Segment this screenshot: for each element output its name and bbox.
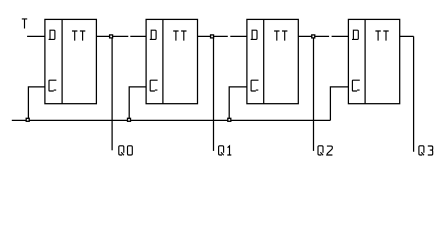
node square on bus at DD3 <box>228 118 231 121</box>
flip-flop DD3 divider <box>263 19 265 103</box>
flip-flop DD1 box <box>45 19 97 103</box>
node square on bus at DD1 <box>26 118 29 121</box>
label TT DD3 <box>274 31 279 41</box>
flip-flop DD3 box <box>247 19 298 103</box>
wire C input DD3 <box>229 87 247 121</box>
wire C input DD2 <box>129 87 146 121</box>
wire DD4 output to Q3 <box>400 36 414 151</box>
label T input <box>22 19 27 29</box>
flip-flop DD2 divider <box>162 19 164 103</box>
wire DD1 output to DD2 D input <box>96 35 146 37</box>
label D pin DD1 <box>49 30 55 39</box>
node square on wire Q2 <box>312 35 315 38</box>
wire C input DD1 <box>28 87 45 121</box>
label D pin DD2 <box>150 30 156 39</box>
flip-flop DD4 divider <box>364 19 366 103</box>
wire DD3 output to DD4 D input <box>298 35 348 37</box>
flip-flop DD2 box <box>146 19 197 103</box>
flip-flop DD1 divider <box>61 19 63 103</box>
label C pin DD2 <box>150 80 157 91</box>
clock bus wire <box>12 119 331 121</box>
label D pin DD3 <box>251 30 257 39</box>
wire node to Q2 <box>313 36 315 150</box>
node square on wire Q1 <box>211 35 214 38</box>
label TT DD1 <box>72 31 77 41</box>
label TT DD4 <box>375 31 380 41</box>
label output Q3 <box>419 146 424 155</box>
wire node to Q0 <box>111 36 113 150</box>
label output Q2 <box>318 146 323 155</box>
label D pin DD4 <box>352 30 358 39</box>
label output Q0 <box>119 146 124 155</box>
label TT DD2 <box>173 31 178 41</box>
label C pin DD4 <box>352 80 359 91</box>
wire node to Q1 <box>213 36 215 150</box>
label C pin DD3 <box>251 80 258 91</box>
flip-flop DD4 box <box>348 19 399 103</box>
wire DD2 output to DD3 D input <box>198 35 247 37</box>
node square on wire Q0 <box>110 35 113 38</box>
label C pin DD1 <box>49 80 56 91</box>
node square on bus at DD2 <box>128 118 131 121</box>
wire T to D input of DD1 <box>27 35 45 37</box>
label output Q1 <box>219 146 224 155</box>
wire C input DD4 <box>330 87 348 121</box>
